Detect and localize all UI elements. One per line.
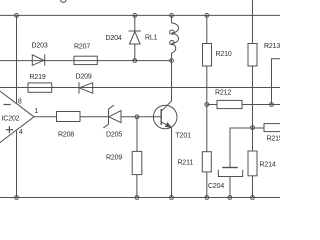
svg-text:R214: R214 bbox=[260, 161, 276, 168]
resistor R210 bbox=[203, 44, 212, 67]
node junction rail2-emitter bbox=[170, 196, 174, 200]
wire bottom rail bbox=[0, 197, 280, 199]
wire row B (D203/R207 row) bbox=[0, 60, 172, 62]
node junction zener-base bbox=[135, 115, 139, 119]
node junction R212 right bbox=[270, 103, 274, 107]
wire C204 loop bbox=[230, 128, 264, 168]
wire R213 column top bbox=[252, 0, 254, 44]
wire D205 to base bbox=[121, 116, 161, 118]
wire right stub corner bbox=[272, 59, 281, 105]
svg-text:D204: D204 bbox=[106, 35, 122, 42]
resistor R212 bbox=[217, 100, 242, 108]
wire collector bbox=[171, 61, 173, 101]
wire pin4 column bbox=[16, 131, 18, 198]
wire R212 right lead bbox=[242, 104, 280, 106]
node junction rail1-RL1 bbox=[170, 14, 174, 18]
node junction rail2-R211 bbox=[205, 196, 209, 200]
node junction rail2-R209 bbox=[135, 196, 139, 200]
resistor R213 bbox=[248, 44, 257, 67]
node junction rail2-pin4 bbox=[15, 196, 19, 200]
diode D204 bbox=[129, 31, 141, 44]
transistor T201 bbox=[153, 101, 177, 129]
resistor R209 bbox=[132, 151, 142, 174]
wire top rail bbox=[0, 14, 280, 16]
inductor RL1 bbox=[170, 15, 179, 60]
resistor R215 bbox=[264, 124, 281, 132]
svg-text:R213: R213 bbox=[264, 43, 280, 50]
svg-text:R219: R219 bbox=[30, 74, 46, 81]
terminal circle bbox=[61, 0, 66, 2]
wire R212 left lead bbox=[207, 104, 217, 106]
diode D209 bbox=[79, 82, 93, 94]
diode D203 bbox=[32, 54, 44, 65]
node junction rail2-R214 bbox=[251, 196, 255, 200]
svg-text:1: 1 bbox=[35, 108, 39, 115]
svg-text:IC202: IC202 bbox=[2, 116, 20, 123]
svg-text:8: 8 bbox=[18, 99, 22, 106]
svg-text:D203: D203 bbox=[32, 43, 48, 50]
op-amp U IC202 bbox=[0, 84, 34, 151]
wire R211 column bbox=[206, 105, 208, 152]
svg-text:4: 4 bbox=[19, 129, 23, 136]
wire zener junction to R209 bbox=[136, 117, 138, 152]
svg-text:C204: C204 bbox=[208, 183, 224, 190]
svg-text:D205: D205 bbox=[106, 132, 122, 139]
resistor R214 bbox=[248, 151, 257, 176]
svg-text:R212: R212 bbox=[215, 90, 231, 97]
node junction rail1-D204 bbox=[133, 14, 137, 18]
wire R214 to rail bbox=[252, 176, 254, 198]
svg-text:D209: D209 bbox=[76, 74, 92, 81]
wire R208 to D205 bbox=[80, 116, 109, 118]
svg-text:R210: R210 bbox=[216, 51, 232, 58]
wire pin8 column bbox=[16, 15, 18, 104]
wire R209 to rail bbox=[136, 175, 138, 198]
wire R210 column top bbox=[206, 15, 208, 43]
resistor R207 bbox=[74, 56, 97, 64]
wire emitter column bbox=[171, 128, 173, 198]
svg-text:R207: R207 bbox=[74, 44, 90, 51]
wire R213 to junction bbox=[252, 66, 254, 128]
svg-text:R215: R215 bbox=[267, 136, 281, 143]
capacitor C204 bbox=[218, 168, 242, 198]
svg-text:R209: R209 bbox=[106, 155, 122, 162]
svg-text:RL1: RL1 bbox=[145, 35, 158, 42]
wire R214 top bbox=[252, 128, 254, 152]
resistor R208 bbox=[57, 112, 81, 122]
node junction rail1-R210 bbox=[205, 14, 209, 18]
node junction R212 left bbox=[205, 103, 209, 107]
zener D205 bbox=[103, 105, 121, 128]
node junction C204-R215 bbox=[251, 126, 255, 130]
svg-text:R208: R208 bbox=[58, 132, 74, 139]
node junction rail1-pin8 bbox=[15, 14, 19, 18]
svg-text:R211: R211 bbox=[178, 159, 194, 166]
wire D204 column bbox=[134, 15, 136, 60]
resistor R211 bbox=[202, 152, 211, 172]
wire op-amp output bbox=[34, 116, 57, 118]
node junction rail2-C204 bbox=[228, 196, 232, 200]
node junction rowB-RL1 bbox=[170, 59, 174, 63]
wire R211 to rail bbox=[206, 172, 208, 198]
wire row C (R219/D209 row) bbox=[0, 87, 280, 89]
resistor R219 bbox=[28, 83, 52, 92]
node junction rowB-D204 bbox=[133, 59, 137, 63]
svg-text:T201: T201 bbox=[176, 132, 192, 139]
wire R210 to R212 junction bbox=[206, 66, 208, 105]
